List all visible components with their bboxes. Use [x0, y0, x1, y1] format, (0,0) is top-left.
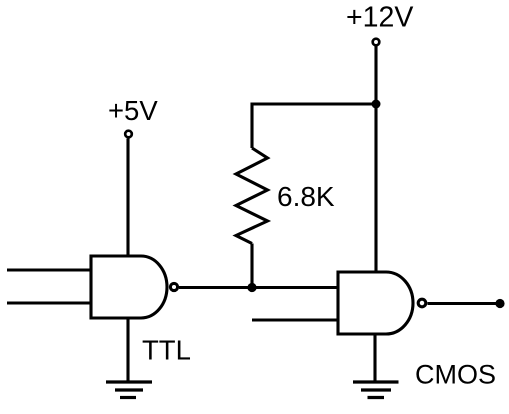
resistor R1 zigzag	[236, 148, 268, 244]
wire +5V terminal to TTL gate VCC	[126, 139, 129, 258]
wire +12V terminal down to CMOS gate VDD	[374, 47, 377, 274]
wire CMOS gate to ground	[373, 334, 376, 382]
wire TTL gate to ground	[126, 318, 129, 382]
svg-text:TTL: TTL	[142, 335, 191, 366]
output endpoint node	[495, 299, 504, 308]
wire CMOS input B	[252, 318, 338, 321]
ground CMOS	[353, 382, 399, 398]
svg-text:CMOS: CMOS	[415, 360, 496, 390]
ground TTL	[106, 382, 152, 398]
NAND gate U1 output bubble	[170, 283, 177, 290]
svg-text:+12V: +12V	[346, 1, 413, 33]
wire TTL input A	[7, 268, 91, 271]
power terminal +5V	[125, 131, 132, 138]
wire junction to resistor top	[252, 104, 376, 148]
junction dot at TTL output node	[247, 283, 256, 292]
wire resistor bottom to output node	[250, 244, 253, 289]
svg-text:6.8K: 6.8K	[277, 181, 335, 212]
power terminal +12V	[373, 39, 380, 46]
svg-text:+5V: +5V	[108, 95, 158, 126]
NAND gate U2 CMOS body	[338, 272, 413, 334]
wire CMOS output	[428, 302, 501, 305]
junction dot at +12V branch	[372, 100, 381, 109]
wire TTL input B	[7, 301, 91, 304]
NAND gate U1 TTL body	[91, 256, 167, 318]
wire TTL output to CMOS input A	[179, 286, 338, 289]
NAND gate U2 output bubble	[418, 299, 426, 307]
